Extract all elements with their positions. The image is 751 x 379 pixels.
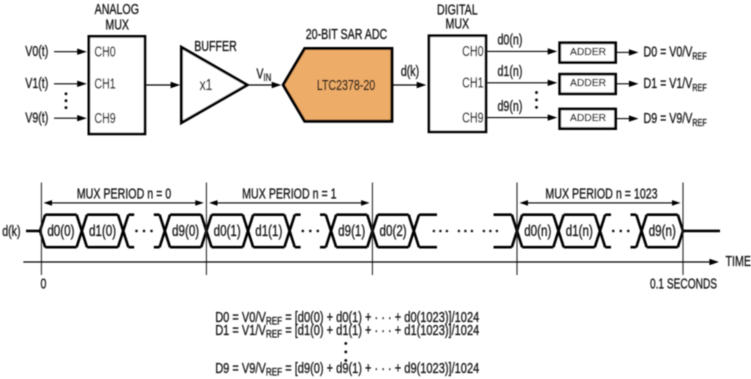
svg-text:d0(1): d0(1) bbox=[214, 222, 241, 239]
svg-text:d9(1): d9(1) bbox=[338, 222, 365, 239]
svg-text:d9(n): d9(n) bbox=[649, 222, 676, 239]
svg-text:x1: x1 bbox=[200, 75, 213, 93]
svg-text:CH1: CH1 bbox=[94, 75, 115, 92]
svg-text:d0(0): d0(0) bbox=[47, 222, 74, 239]
svg-text:d0(n): d0(n) bbox=[524, 222, 551, 239]
svg-text:d0(2): d0(2) bbox=[380, 222, 407, 239]
svg-text:V0(t): V0(t) bbox=[25, 42, 48, 59]
svg-text:D1 = V1/VREF = [d1(0) + d1(1): D1 = V1/VREF = [d1(0) + d1(1) + · · · + … bbox=[215, 321, 479, 341]
svg-text:20-BIT SAR ADC: 20-BIT SAR ADC bbox=[306, 25, 388, 42]
svg-text:MUX: MUX bbox=[105, 16, 129, 33]
svg-text:d1(0): d1(0) bbox=[89, 222, 116, 239]
svg-text:ADDER: ADDER bbox=[570, 78, 606, 89]
svg-text:0: 0 bbox=[40, 275, 46, 292]
svg-text:LTC2378-20: LTC2378-20 bbox=[317, 76, 375, 93]
svg-text:CH9: CH9 bbox=[94, 109, 115, 126]
svg-text:ADDER: ADDER bbox=[570, 47, 606, 58]
svg-text:ADDER: ADDER bbox=[570, 113, 606, 124]
svg-text:d1(n): d1(n) bbox=[566, 222, 593, 239]
svg-text:TIME: TIME bbox=[726, 253, 751, 270]
svg-text:0.1 SECONDS: 0.1 SECONDS bbox=[650, 276, 717, 292]
svg-text:MUX PERIOD n = 1023: MUX PERIOD n = 1023 bbox=[545, 185, 657, 202]
svg-text:d9(n): d9(n) bbox=[498, 97, 523, 114]
svg-text:CH9: CH9 bbox=[462, 109, 483, 126]
svg-text:V1(t): V1(t) bbox=[25, 75, 48, 92]
svg-text:d(k): d(k) bbox=[401, 62, 419, 79]
svg-text:MUX: MUX bbox=[445, 15, 469, 32]
svg-text:d1(n): d1(n) bbox=[498, 62, 523, 79]
svg-text:d9(0): d9(0) bbox=[172, 222, 199, 239]
svg-text:BUFFER: BUFFER bbox=[194, 38, 237, 55]
svg-text:d0(n): d0(n) bbox=[498, 31, 523, 48]
svg-text:CH1: CH1 bbox=[462, 74, 483, 91]
svg-text:CH0: CH0 bbox=[94, 43, 115, 60]
svg-text:CH0: CH0 bbox=[462, 42, 483, 59]
svg-text:d(k): d(k) bbox=[2, 222, 20, 239]
svg-text:d1(1): d1(1) bbox=[255, 222, 282, 239]
svg-text:MUX PERIOD n = 0: MUX PERIOD n = 0 bbox=[77, 185, 171, 202]
svg-text:MUX PERIOD n = 1: MUX PERIOD n = 1 bbox=[242, 185, 336, 202]
svg-text:V9(t): V9(t) bbox=[25, 109, 48, 126]
svg-text:D9 = V9/VREF = [d9(0) + d9(1): D9 = V9/VREF = [d9(0) + d9(1) + · · · + … bbox=[215, 360, 479, 379]
